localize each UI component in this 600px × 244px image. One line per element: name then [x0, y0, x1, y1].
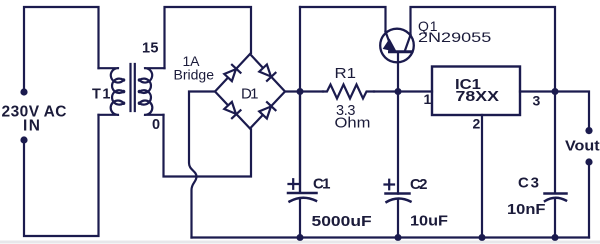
transformer T1 secondary winding	[140, 68, 165, 115]
svg-text:0: 0	[152, 117, 160, 133]
node: junction R1 / Q1 base / C2	[395, 88, 402, 95]
transformer T1 primary winding	[99, 68, 124, 115]
wire: Q1 base down to R1 output node	[397, 52, 399, 92]
diode D1b top-right	[259, 64, 276, 81]
svg-text:C3: C3	[518, 175, 539, 192]
wire: bridge right output to R1	[285, 90, 323, 92]
capacitor C3 plates	[545, 192, 567, 195]
svg-text:C1: C1	[313, 176, 331, 193]
wire: Vout bottom terminal to ground bus	[588, 166, 590, 238]
svg-text:2N29055: 2N29055	[418, 30, 491, 46]
node: pin2 ground junction	[479, 234, 486, 241]
node: Vout terminal top	[585, 127, 592, 134]
capacitor C1 bottom lead	[299, 199, 301, 238]
diode D1d bottom-right	[259, 102, 276, 119]
resistor R1	[323, 85, 374, 99]
capacitor C3 bottom lead	[554, 198, 556, 237]
wire: IC1 pin 3 output to Vout corner	[520, 92, 589, 128]
svg-text:1: 1	[424, 91, 432, 107]
capacitor C2 bottom lead	[397, 200, 399, 238]
wire: AC bottom from input to primary bottom	[24, 115, 99, 236]
svg-text:C2: C2	[410, 176, 428, 193]
jpeg artifact band under ground bus	[0, 241, 600, 244]
polarity + of C1	[289, 179, 299, 189]
capacitor C1 top lead	[299, 92, 301, 193]
svg-text:15: 15	[142, 41, 159, 57]
transistor Q1 collector	[405, 35, 411, 51]
transistor Q1 emitter with arrow	[386, 32, 393, 50]
node: junction bridge output / C1	[297, 88, 304, 95]
wire: R1 to IC1 pin1	[374, 90, 432, 92]
svg-text:Vout: Vout	[565, 138, 600, 154]
diode D1a top-left	[224, 65, 241, 82]
capacitor C1 plates	[288, 192, 317, 195]
IC1 regulator box	[432, 67, 520, 116]
transistor Q1 base bar	[390, 50, 412, 53]
wire: AC top rail from input to primary	[24, 7, 99, 92]
polarity + of C2	[385, 180, 395, 190]
svg-text:78XX: 78XX	[456, 88, 499, 104]
node: C1 ground junction	[297, 234, 304, 241]
svg-text:10nF: 10nF	[507, 202, 546, 218]
svg-text:5000uF: 5000uF	[312, 213, 372, 230]
svg-text:IN: IN	[23, 118, 40, 135]
wire: Q1 collector rail to output junction	[411, 7, 556, 92]
svg-text:Ohm: Ohm	[335, 115, 371, 131]
wire: secondary 15 tap to bridge top	[165, 7, 252, 68]
wire: secondary 0 tap down and right to bridge bottom	[164, 115, 252, 177]
bridge rectifier D1 diamond	[215, 54, 285, 129]
capacitor C2 plates	[386, 192, 410, 195]
transformer T1 core	[131, 64, 135, 111]
wire: positive rail up and over to Q1 emitter	[300, 7, 386, 32]
capacitor C3 top lead	[554, 92, 556, 193]
diode D1c bottom-left	[224, 101, 241, 118]
node: Vout terminal bottom	[585, 158, 592, 165]
svg-text:2: 2	[473, 116, 481, 132]
svg-text:D1: D1	[241, 86, 259, 103]
node: C2 ground junction	[395, 234, 402, 241]
svg-text:3: 3	[533, 93, 541, 109]
node: C3 ground junction	[552, 234, 559, 241]
node: junction pin3 / Q1 collector / C3	[552, 88, 559, 95]
node: AC input terminal top	[20, 88, 27, 95]
capacitor C2 top lead	[397, 92, 399, 194]
transistor Q1 circle	[380, 29, 414, 63]
svg-text:10uF: 10uF	[410, 213, 448, 229]
svg-text:R1: R1	[335, 66, 357, 82]
wire: ground bus	[192, 236, 590, 238]
wire: IC1 pin 2 to ground	[481, 115, 483, 238]
wire: bridge left arm to ground with crossover hop	[189, 92, 215, 238]
wire: C1 branch vertical	[299, 7, 301, 192]
svg-text:Bridge: Bridge	[174, 67, 215, 83]
node: AC input terminal bottom	[20, 136, 27, 143]
